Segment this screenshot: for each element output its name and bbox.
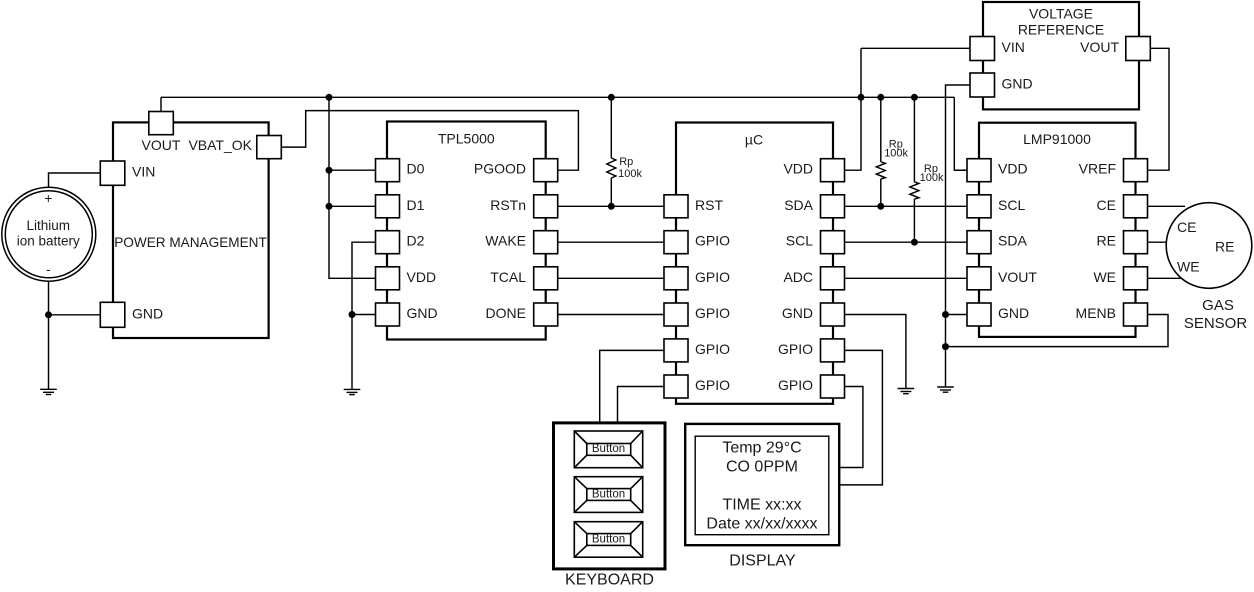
svg-text:PGOOD: PGOOD (474, 161, 526, 177)
node rail Rp2 junction (877, 94, 884, 101)
pin VBAT_OK (PM) (257, 136, 282, 159)
svg-text:RE: RE (1097, 233, 1116, 249)
svg-text:Rp: Rp (619, 156, 633, 168)
svg-text:VOLTAGE: VOLTAGE (1029, 6, 1093, 22)
wire DONE to GPIO (558, 314, 664, 316)
pin GND (PM) (100, 302, 125, 327)
pin VDD (LMP) (967, 159, 991, 182)
pin CE (LMP) (1124, 195, 1148, 218)
pin ADC (821, 267, 845, 290)
svg-text:D2: D2 (407, 233, 425, 249)
svg-text:WAKE: WAKE (485, 233, 526, 249)
node battery GND junction (45, 311, 52, 318)
svg-text:ion battery: ion battery (17, 234, 80, 249)
pin RE (LMP) (1124, 231, 1148, 254)
svg-text:VBAT_OK: VBAT_OK (188, 137, 252, 153)
wire WE to gas sensor (1148, 277, 1186, 279)
svg-text:D0: D0 (407, 161, 425, 177)
wire RSTn to RST (558, 205, 664, 207)
svg-text:GPIO: GPIO (778, 377, 813, 393)
node SDA junction (877, 203, 884, 210)
svg-text:VIN: VIN (1002, 39, 1025, 55)
pin GND (LMP) (967, 303, 991, 326)
block DISPLAY (685, 424, 839, 545)
ground (uC) (898, 389, 915, 394)
wire to D1 (329, 205, 376, 207)
pin SCL (LMP) (967, 195, 991, 218)
pin GPIO (uC left 3) (664, 267, 688, 290)
svg-text:GND: GND (1002, 76, 1033, 92)
svg-text:100k: 100k (618, 168, 642, 180)
svg-text:Button: Button (592, 443, 625, 455)
svg-text:DISPLAY: DISPLAY (729, 553, 796, 570)
wire CE to gas sensor (1148, 205, 1186, 207)
wire D2 to GND net (352, 242, 376, 314)
wire LMP VDD stub (954, 169, 967, 171)
svg-text:GPIO: GPIO (695, 377, 730, 393)
svg-text:DONE: DONE (486, 305, 526, 321)
node D0 junction (326, 167, 333, 174)
block KEYBOARD (554, 423, 666, 569)
pin GND (TPL) (376, 303, 400, 326)
wire uC VDD to rail (845, 48, 862, 170)
wire rail down to TPL VDD (329, 97, 376, 278)
wire uC GPIO6 to keyboard (618, 387, 665, 422)
button 1 (574, 431, 642, 468)
wire TPL GND to ground (352, 315, 376, 390)
wire battery + to VIN (49, 173, 101, 187)
button 2 (574, 477, 642, 513)
svg-text:SCL: SCL (998, 197, 1025, 213)
node TPL GND junction (349, 311, 356, 318)
wire rail end to LMP VDD (954, 97, 967, 170)
svg-text:VIN: VIN (132, 164, 155, 180)
node rail Rp3 junction (911, 94, 918, 101)
pin GPIO (uC left 2) (664, 231, 688, 254)
svg-text:100k: 100k (884, 148, 908, 160)
pin GPIO (uC left 4) (664, 303, 688, 326)
svg-text:GND: GND (132, 305, 163, 321)
svg-text:RE: RE (1215, 239, 1234, 255)
svg-text:VOUT: VOUT (1080, 39, 1119, 55)
wire uC GPIO r7 to display (839, 387, 863, 468)
svg-text:TIME xx:xx: TIME xx:xx (722, 496, 801, 513)
svg-text:VDD: VDD (407, 269, 437, 285)
pin VIN (PM) (100, 161, 125, 185)
block LMP91000 (979, 123, 1136, 337)
pin VOUT (VREF) (1126, 37, 1151, 61)
resistor Rp2 100k (876, 97, 908, 206)
resistor Rp3 100k (910, 97, 944, 242)
svg-text:SDA: SDA (784, 197, 813, 213)
svg-text:µC: µC (745, 131, 763, 147)
svg-text:100k: 100k (920, 172, 944, 184)
svg-text:Button: Button (592, 534, 625, 546)
pin PGOOD (534, 159, 558, 182)
wire top power rail (161, 96, 954, 98)
pin GND (VREF) (970, 73, 995, 97)
gas sensor (1166, 203, 1252, 332)
svg-text:GND: GND (407, 305, 438, 321)
pin GPIO (uC left 5) (664, 339, 688, 362)
svg-text:TPL5000: TPL5000 (438, 131, 495, 147)
wire uC GPIO5 to keyboard (600, 350, 664, 421)
svg-text:KEYBOARD: KEYBOARD (565, 572, 654, 589)
wire VOUT to top rail (160, 97, 162, 111)
block POWER MANAGEMENT (113, 122, 269, 338)
pin VDD (uC) (821, 159, 845, 182)
node D1 junction (326, 203, 333, 210)
svg-text:Date xx/xx/xxxx: Date xx/xx/xxxx (706, 515, 817, 532)
pin GPIO (uC right 6) (821, 339, 845, 362)
pin MENB (LMP) (1124, 303, 1148, 326)
svg-text:CE: CE (1097, 197, 1116, 213)
block uC (676, 123, 833, 404)
svg-text:SDA: SDA (998, 233, 1027, 249)
svg-text:GPIO: GPIO (695, 341, 730, 357)
wire battery node to PM GND (49, 314, 101, 316)
svg-text:SENSOR: SENSOR (1184, 315, 1248, 332)
svg-text:Temp 29°C: Temp 29°C (722, 440, 801, 457)
wire TCAL to GPIO (558, 277, 664, 279)
node LMP GND junction (942, 311, 949, 318)
pin SCL (uC) (821, 231, 845, 254)
pin VREF (LMP) (1124, 159, 1148, 182)
wire VREF VIN to rail (861, 47, 970, 49)
node VDD rail junction (858, 94, 865, 101)
block TPL5000 (387, 122, 546, 340)
svg-text:LMP91000: LMP91000 (1023, 131, 1091, 147)
pin SDA (uC) (821, 195, 845, 218)
wire MENB to ground net (946, 315, 1169, 347)
node RST junction (608, 203, 615, 210)
wire to D0 (329, 169, 376, 171)
node rail Rp1 junction (608, 94, 615, 101)
pin GND (uC) (821, 303, 845, 326)
svg-text:Button: Button (592, 489, 625, 501)
svg-text:VDD: VDD (783, 161, 813, 177)
pin GPIO (uC left 6) (664, 375, 688, 398)
button 3 (574, 522, 642, 558)
svg-text:WE: WE (1177, 259, 1200, 275)
svg-text:VOUT: VOUT (142, 137, 181, 153)
svg-text:GPIO: GPIO (778, 341, 813, 357)
wire SCL to LMP SDA (845, 241, 968, 243)
svg-text:VOUT: VOUT (998, 269, 1037, 285)
pin VIN (VREF) (970, 37, 995, 61)
wire ADC to LMP VOUT (845, 277, 968, 279)
svg-text:MENB: MENB (1076, 305, 1116, 321)
pin D2 (376, 231, 400, 254)
svg-text:ADC: ADC (783, 269, 813, 285)
svg-text:GPIO: GPIO (695, 269, 730, 285)
wire VREF VOUT to LMP VREF (1148, 48, 1170, 170)
pin D0 (376, 159, 400, 182)
pin SDA (LMP) (967, 231, 991, 254)
resistor Rp1 100k (607, 97, 643, 206)
svg-text:REFERENCE: REFERENCE (1018, 22, 1104, 38)
svg-text:+: + (44, 190, 52, 206)
svg-text:WE: WE (1093, 269, 1116, 285)
block VOLTAGE REFERENCE (983, 2, 1139, 109)
pin GPIO (uC right 7) (821, 375, 845, 398)
wire uC GND to ground (845, 315, 906, 389)
wire LMP GND to ground net (946, 314, 968, 316)
node SCL junction (911, 239, 918, 246)
pin TCAL (534, 267, 558, 290)
svg-text:VREF: VREF (1079, 161, 1116, 177)
svg-text:GPIO: GPIO (695, 305, 730, 321)
wire VBAT_OK to PGOOD rail (281, 111, 578, 171)
wire SDA to LMP SCL (845, 205, 968, 207)
wire RE to gas sensor (1148, 241, 1168, 243)
svg-text:-: - (46, 261, 51, 277)
svg-text:VDD: VDD (998, 161, 1028, 177)
pin D1 (376, 195, 400, 218)
svg-text:POWER MANAGEMENT: POWER MANAGEMENT (114, 235, 267, 250)
svg-text:CE: CE (1177, 219, 1196, 235)
pin WE (LMP) (1124, 267, 1148, 290)
pin VOUT (LMP) (967, 267, 991, 290)
svg-text:CO 0PPM: CO 0PPM (726, 459, 798, 476)
svg-text:D1: D1 (407, 197, 425, 213)
ground (battery) (40, 389, 57, 394)
wire VREF GND down to ground (946, 85, 971, 387)
wire battery - to ground (48, 281, 50, 389)
ground (TPL5000) (344, 389, 361, 394)
pin RSTn (534, 195, 558, 218)
svg-text:RST: RST (695, 197, 723, 213)
svg-text:GAS: GAS (1202, 297, 1234, 314)
battery B1 (2, 187, 96, 281)
ground (LMP/VREF) (937, 387, 954, 392)
svg-text:GND: GND (782, 305, 813, 321)
wire uC GPIO r6 to display (839, 350, 882, 485)
svg-text:RSTn: RSTn (490, 197, 526, 213)
pin VDD (TPL) (376, 267, 400, 290)
svg-text:SCL: SCL (786, 233, 813, 249)
node MENB junction (942, 343, 949, 350)
wire WAKE to GPIO (558, 241, 664, 243)
svg-text:Lithium: Lithium (27, 218, 71, 233)
pin VOUT (PM) (149, 112, 174, 135)
svg-text:GPIO: GPIO (695, 233, 730, 249)
pin WAKE (534, 231, 558, 254)
pin DONE (534, 303, 558, 326)
svg-text:GND: GND (998, 305, 1029, 321)
node rail to TPL junction (326, 94, 333, 101)
pin RST (664, 195, 688, 218)
svg-text:TCAL: TCAL (490, 269, 526, 285)
